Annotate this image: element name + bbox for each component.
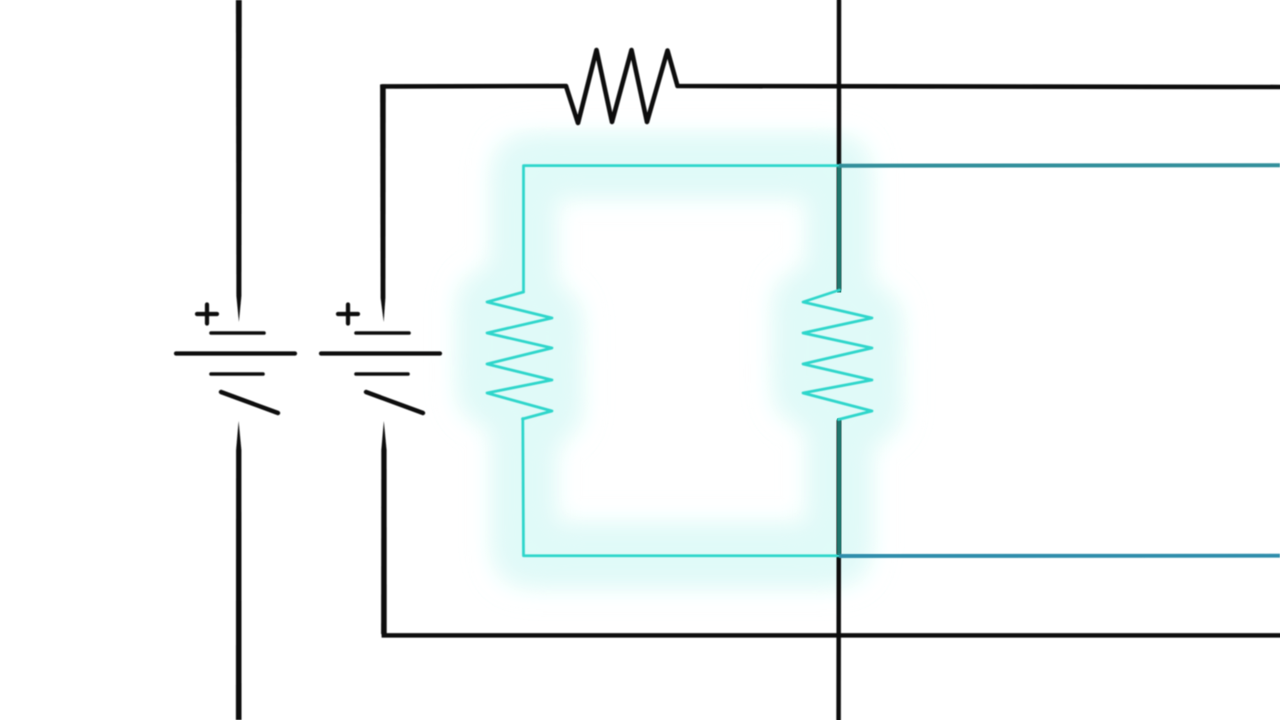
battery B2 plate 2 (long) [321, 351, 440, 355]
glow halo of highlighted loop [487, 166, 872, 556]
wire loop top edge (highlighted) [524, 166, 840, 292]
wire right vertical rail (lower) [836, 421, 841, 720]
wire bottom rail [384, 630, 1280, 635]
wire right vertical rail (upper) [837, 0, 842, 289]
battery B1 plus label [197, 305, 217, 324]
resistor R3 (right, highlighted) [803, 290, 872, 420]
battery B2 plate 1 [356, 331, 409, 335]
battery B1 plate 4 (slanted) [221, 392, 278, 413]
battery B2 plate 3 [356, 372, 408, 376]
battery B1 plate 1 [211, 331, 264, 335]
wire battery B2 top lead [380, 84, 386, 322]
battery B1 plate 2 (long) [176, 351, 295, 355]
wire top rail with resistor R1 [382, 50, 1280, 123]
battery B1 plate 3 [211, 372, 263, 376]
resistor R2 (left, highlighted) [487, 292, 552, 419]
wire bottom-right teal [839, 554, 1280, 558]
battery B2 plus label [338, 305, 358, 324]
wire loop bottom edge (highlighted) [523, 419, 840, 556]
wire loop right edge over black rail (blend) [837, 167, 841, 554]
wire battery B1 bottom lead [236, 421, 242, 720]
battery B2 plate 4 (slanted) [366, 392, 423, 413]
wire battery B2 bottom lead [381, 421, 387, 634]
wire battery B1 top lead [236, 0, 242, 322]
wire top-right teal [839, 163, 1280, 167]
